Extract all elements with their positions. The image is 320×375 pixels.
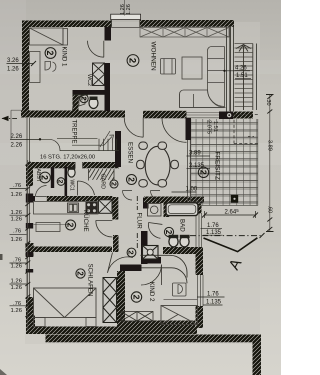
svg-text:.76: .76 xyxy=(13,183,22,189)
door KIND1 entry arc xyxy=(73,95,89,111)
WM washing machine xyxy=(143,246,159,260)
circle2 BAD xyxy=(164,227,174,236)
wall divider KIND1-WOHNEN xyxy=(105,27,112,41)
svg-text:2: 2 xyxy=(164,230,173,235)
door WC1 arc xyxy=(78,181,95,196)
wall flur west piece xyxy=(113,235,119,252)
wall top KIND1 xyxy=(22,21,112,28)
dim labels west chain xyxy=(11,183,23,314)
wall WC2 east low xyxy=(105,95,111,111)
WC2 basin xyxy=(79,96,85,106)
wall right of WC2 shaft xyxy=(105,63,111,95)
circle2 ESSEN xyxy=(126,175,136,185)
circle2 FLUR xyxy=(127,248,136,257)
wall bad west column xyxy=(164,203,170,217)
wall flur east lower xyxy=(141,231,148,264)
column symbol at landing xyxy=(226,112,234,120)
wall divider treppe east xyxy=(115,131,121,167)
svg-text:2: 2 xyxy=(79,97,88,101)
svg-text:2: 2 xyxy=(126,177,135,182)
KUECHE stove xyxy=(86,202,98,214)
wall bad north band xyxy=(144,197,204,204)
svg-text:1.26: 1.26 xyxy=(11,285,23,291)
wall left outer upper xyxy=(22,21,29,112)
svg-text:KIND 2: KIND 2 xyxy=(148,282,155,303)
svg-text:1.26: 1.26 xyxy=(11,279,23,285)
svg-text:2: 2 xyxy=(127,250,136,254)
KIND1 bed/shelf xyxy=(30,52,41,83)
svg-text:ESSEN: ESSEN xyxy=(127,142,134,163)
svg-text:TREPPE: TREPPE xyxy=(71,120,77,144)
door FLUR top right arc xyxy=(151,191,161,201)
section arrow A triangle xyxy=(204,238,258,252)
WOHNEN sofa L xyxy=(180,47,226,108)
svg-text:2: 2 xyxy=(109,182,116,186)
svg-text:1.26: 1.26 xyxy=(11,308,23,314)
dim 3.26/1.26 left top xyxy=(7,58,19,73)
KIND2 desk xyxy=(164,299,198,301)
svg-text:2.075: 2.075 xyxy=(206,120,212,134)
wall south jog xyxy=(26,315,35,334)
shaft WC2 north (X box) xyxy=(93,63,105,86)
BAD washbasin unit xyxy=(148,204,162,217)
svg-text:2: 2 xyxy=(131,295,141,300)
wall WOHNEN south band xyxy=(143,112,187,119)
wall essen east xyxy=(186,118,192,140)
BAD toilet pair xyxy=(169,236,189,247)
wall treppe north band xyxy=(21,111,125,118)
wall WC2 west band xyxy=(73,95,79,112)
svg-text:16 STG. 17,20x26,00: 16 STG. 17,20x26,00 xyxy=(40,155,95,161)
door FLUR top left arc xyxy=(123,191,133,201)
dim 2.075/1.51 rotated xyxy=(206,120,219,134)
wall bad south band xyxy=(163,247,198,254)
outdoor stair treads xyxy=(235,44,253,107)
SCHLAFEN bed xyxy=(34,288,97,318)
door SCHLAFEN xyxy=(107,253,132,278)
wall band abst-wc1-gard top xyxy=(28,162,120,168)
wall pier west 5 xyxy=(26,269,33,273)
svg-text:3.89: 3.89 xyxy=(189,151,201,157)
circle2 KUECHE xyxy=(65,220,75,230)
freisitz paving grid xyxy=(191,119,258,206)
dim 4.26/1.51 stairs xyxy=(235,66,248,80)
wall east kind2 pier low xyxy=(196,306,204,328)
svg-text:1.00: 1.00 xyxy=(186,187,198,193)
bottom left corner blob xyxy=(0,369,7,375)
wall kind2 west hatch xyxy=(117,271,125,328)
KIND2 bed xyxy=(161,306,198,325)
terrace door steps xyxy=(187,113,220,118)
svg-text:1.26: 1.26 xyxy=(11,264,23,270)
wall pier west 6 xyxy=(26,252,33,257)
svg-text:2: 2 xyxy=(128,58,139,63)
svg-text:3.89: 3.89 xyxy=(266,140,272,151)
circle2 SCHLAFEN xyxy=(76,269,86,278)
wall kind2 south band xyxy=(117,321,195,329)
wall divider abst-wc1 xyxy=(51,167,54,188)
shaft kueche east (X box) xyxy=(99,200,113,214)
wall WC2 top band xyxy=(73,90,105,95)
freisitz drain square xyxy=(231,195,238,203)
svg-text:1.76: 1.76 xyxy=(207,292,219,298)
section line A horizontal xyxy=(190,235,262,237)
section arrow left edge xyxy=(2,117,17,119)
svg-text:1.26: 1.26 xyxy=(11,217,23,223)
ESSEN dining table xyxy=(145,146,170,185)
svg-text:.60: .60 xyxy=(266,206,272,214)
circle2 WOHNEN xyxy=(127,55,139,67)
wall WOHNEN east thin xyxy=(227,27,231,112)
window east bad xyxy=(196,213,202,247)
wall band kueche top xyxy=(27,196,35,201)
dashed overhang rect xyxy=(234,115,258,144)
window band WOHNEN north (X cells) xyxy=(140,28,229,38)
plan interior lighter tone xyxy=(25,22,260,344)
dim 1.26/1.26 top rotated xyxy=(120,4,132,15)
svg-text:1.26: 1.26 xyxy=(11,192,23,198)
dim line east xyxy=(269,94,271,232)
WOHNEN coffee table xyxy=(182,57,202,79)
left edge dark dot xyxy=(0,254,3,260)
window essen east thin xyxy=(188,140,191,205)
outdoor stair left rail xyxy=(230,27,234,112)
svg-text:30: 30 xyxy=(265,100,271,106)
nightstand right xyxy=(86,318,96,327)
svg-text:1.26: 1.26 xyxy=(126,4,132,15)
circle2 KIND1 xyxy=(45,48,56,59)
stair up arrow xyxy=(236,45,251,111)
svg-text:.76: .76 xyxy=(13,229,22,235)
circle2 WC1 xyxy=(57,178,65,186)
wall pier west 3 xyxy=(26,223,33,229)
door KIND1-WOHNEN xyxy=(87,41,103,57)
KIND1 desk chair xyxy=(45,62,51,71)
circle2 ABST xyxy=(40,172,51,183)
wall left thin (window band west) xyxy=(27,118,30,316)
WOHNEN armchair xyxy=(161,59,176,75)
KIND2 wardrobe X cells xyxy=(121,312,153,322)
wall top WOHNEN xyxy=(140,20,234,27)
door KIND2 xyxy=(141,265,162,286)
BAD bathtub xyxy=(166,203,198,216)
dim ticks west xyxy=(25,162,30,318)
wall pier west 1 xyxy=(26,165,33,186)
svg-text:2: 2 xyxy=(45,51,55,56)
circle2 FREISITZ xyxy=(198,167,208,177)
stair landing wall xyxy=(231,112,253,119)
window top between KIND1 and WOHNEN xyxy=(111,14,141,19)
svg-text:2: 2 xyxy=(198,170,208,175)
window east kind2 xyxy=(198,275,204,306)
svg-text:FLUR: FLUR xyxy=(136,213,143,230)
column at stair base xyxy=(219,112,227,120)
GARD coat rack xyxy=(89,169,115,181)
wall south band A xyxy=(27,327,197,335)
svg-text:FREISITZ: FREISITZ xyxy=(214,152,221,180)
svg-text:2.26: 2.26 xyxy=(11,143,23,149)
wall west schlafen (hatch) xyxy=(26,297,34,333)
wall essen north band xyxy=(144,111,187,118)
svg-text:2: 2 xyxy=(65,223,75,228)
door KUECHE-FLUR xyxy=(96,221,113,238)
door BAD xyxy=(147,223,163,239)
shaft schlafen-kind2 (X column) xyxy=(103,278,117,323)
svg-text:WOHNEN: WOHNEN xyxy=(150,42,157,71)
svg-text:GARD: GARD xyxy=(100,174,106,190)
wall pier west 4 (hatch) xyxy=(26,243,34,257)
svg-text:1.26: 1.26 xyxy=(11,237,23,243)
dim chain line west xyxy=(27,160,29,330)
treppe leader curve xyxy=(40,139,66,150)
svg-text:KIND 1: KIND 1 xyxy=(61,47,68,68)
door ESSEN arc right xyxy=(162,118,187,143)
WC1 toilet xyxy=(68,168,75,177)
svg-text:WC2: WC2 xyxy=(86,74,92,86)
svg-text:2: 2 xyxy=(40,175,50,180)
ESSEN chairs xyxy=(137,142,179,187)
nightstand left xyxy=(34,318,46,327)
door ABST xyxy=(36,186,47,197)
KUECHE low table xyxy=(36,223,60,232)
wall schlafen north band xyxy=(33,247,112,253)
svg-text:2: 2 xyxy=(76,271,85,276)
wall kueche-flur east xyxy=(112,197,118,220)
outdoor stair right rail xyxy=(253,44,257,111)
KIND1 wardrobe with diagonal xyxy=(30,28,68,45)
wall kind2 north xyxy=(120,265,142,272)
KUECHE counter xyxy=(34,202,99,215)
circle2 GARD xyxy=(109,180,118,188)
door WOHNEN-ESSEN xyxy=(124,118,143,138)
WC2 toilet xyxy=(89,98,98,109)
wall under WM xyxy=(141,257,161,264)
circle2 WC2 xyxy=(79,94,88,102)
TREPPE stairs xyxy=(57,131,119,151)
wall southeast column xyxy=(253,335,262,375)
svg-text:2: 2 xyxy=(57,180,64,184)
svg-text:WC1: WC1 xyxy=(69,180,75,191)
KUECHE sink xyxy=(68,203,79,213)
svg-text:KÜCHE: KÜCHE xyxy=(82,210,89,232)
svg-text:1.51: 1.51 xyxy=(212,121,218,132)
svg-text:BAD: BAD xyxy=(179,219,186,232)
section dashdot FLUR xyxy=(136,196,138,248)
svg-text:1.26: 1.26 xyxy=(7,67,19,73)
curved corridor wall KIND2 entry xyxy=(141,255,188,277)
circle2 KIND2 xyxy=(131,292,141,302)
wall east bad pier xyxy=(195,197,202,214)
wall divider wc1-gard xyxy=(65,167,68,196)
wall south band B xyxy=(46,335,261,343)
svg-text:1.135: 1.135 xyxy=(206,300,222,306)
svg-text:SCHLAFEN: SCHLAFEN xyxy=(87,264,94,297)
wall flur east upper xyxy=(143,198,149,209)
wall east pier mid xyxy=(196,247,204,275)
dim 2.26/2.26 xyxy=(11,134,23,149)
wall pier west 2 xyxy=(26,194,33,203)
